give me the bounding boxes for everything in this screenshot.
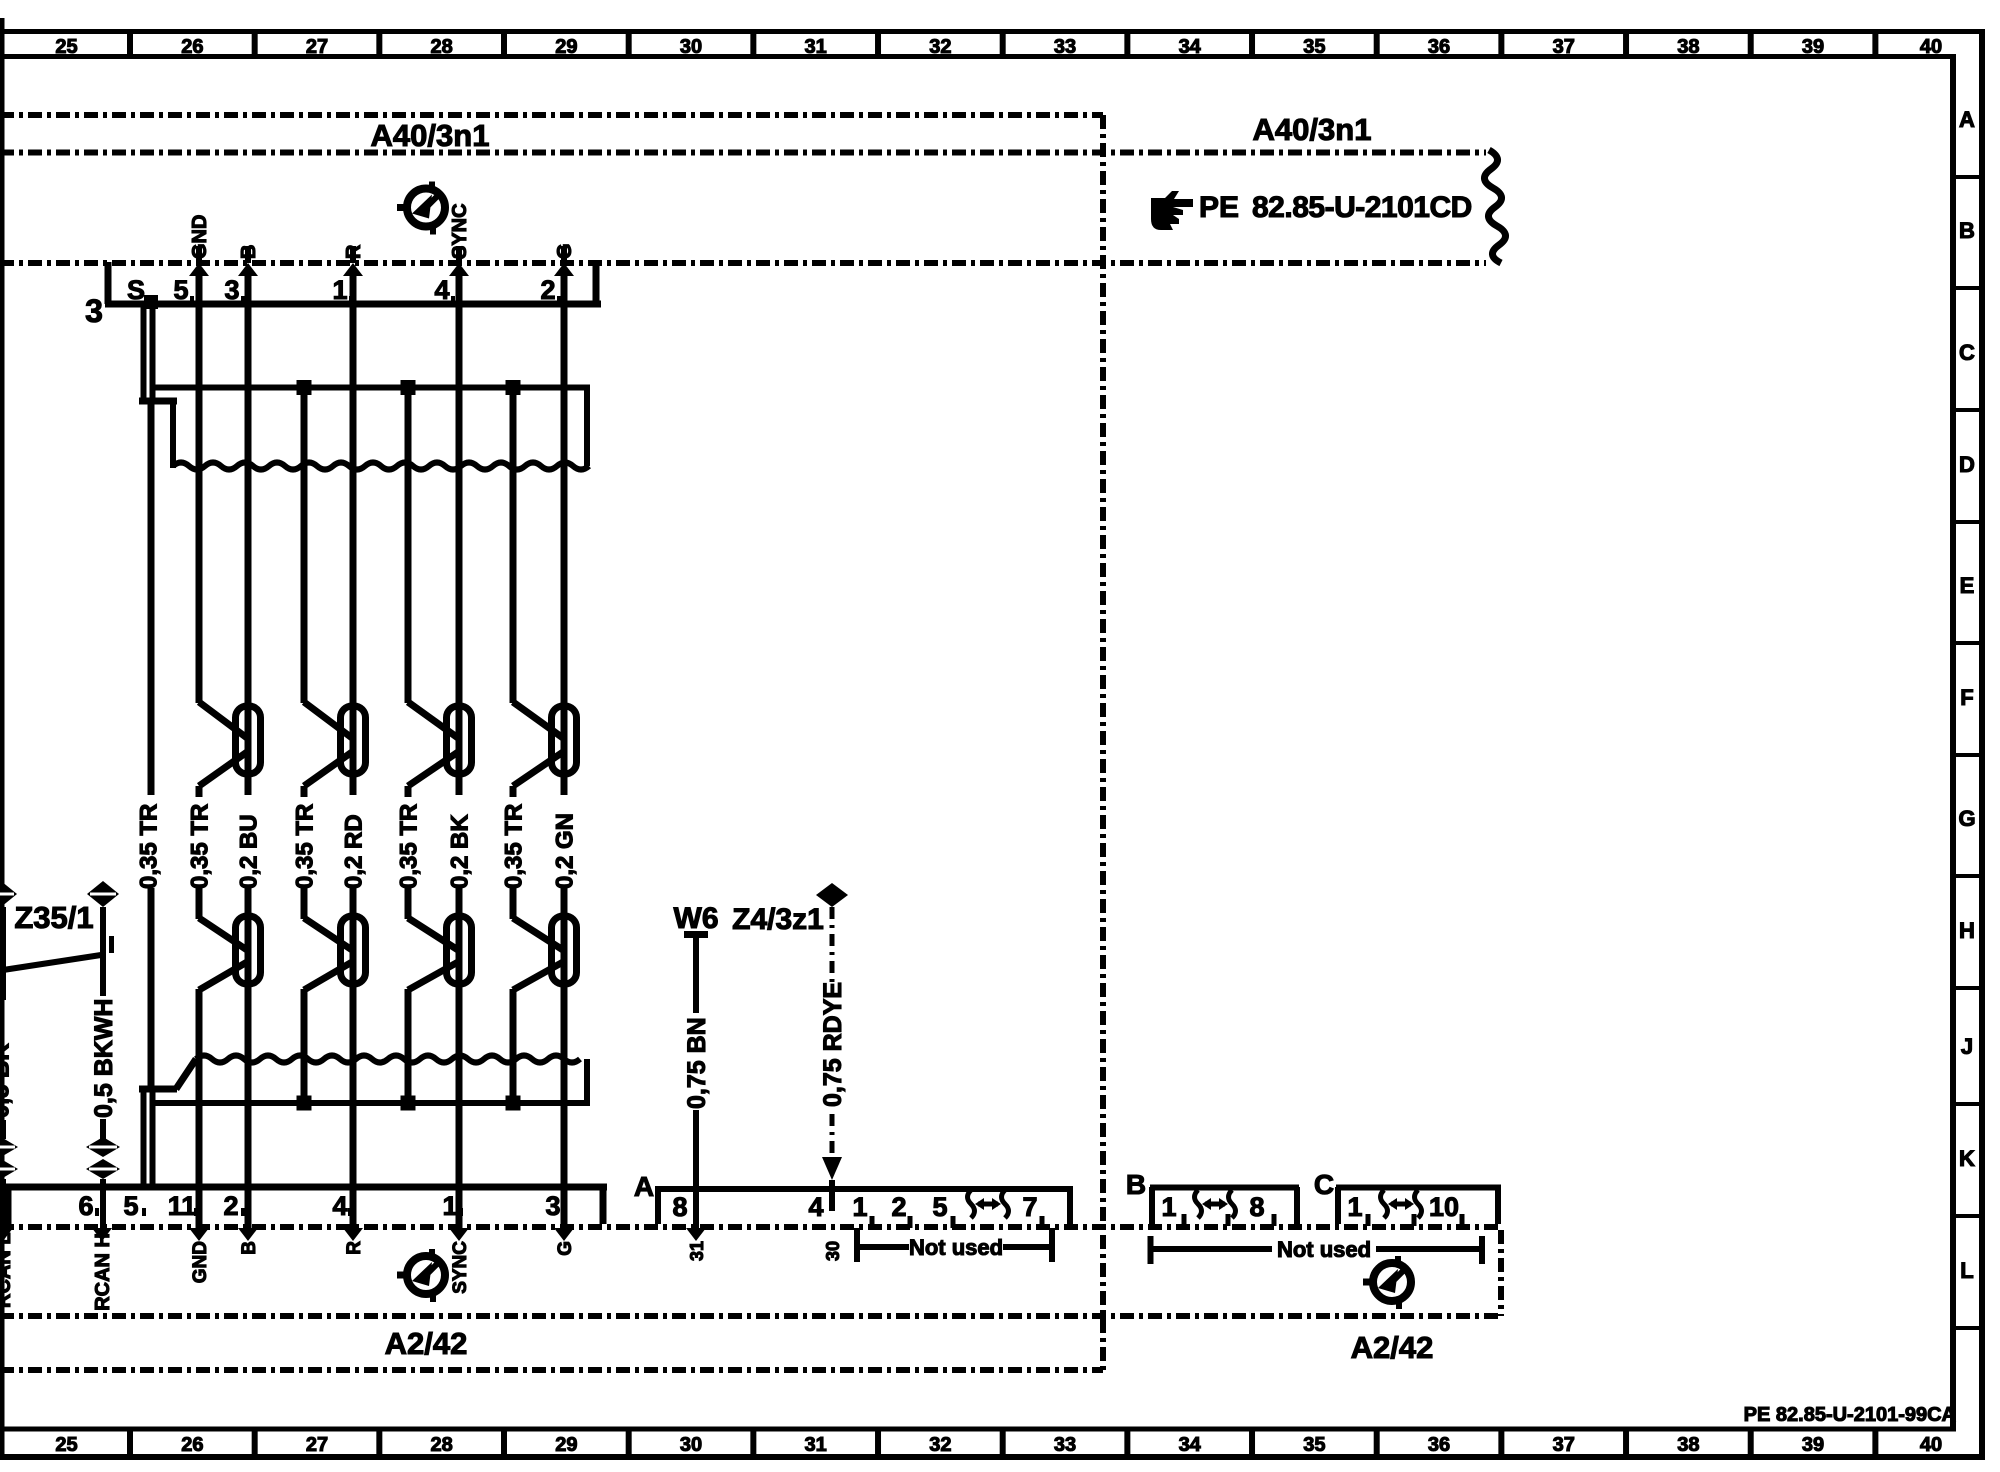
wire: screen drop to cable braid xyxy=(170,401,176,468)
junction: pair4 drain to bottom bus xyxy=(506,1096,521,1111)
pin ticks connector C xyxy=(1368,1214,1462,1226)
svg-text:38: 38 xyxy=(1677,1434,1699,1456)
svg-text:0,2 RD: 0,2 RD xyxy=(341,814,368,889)
connector C of A2/42 xyxy=(1336,1187,1501,1224)
wire 0,75 BN (W6 to pin A8) xyxy=(693,934,699,1229)
node RCAN L arrow xyxy=(0,1228,13,1241)
svg-text:G: G xyxy=(554,243,576,259)
svg-text:4: 4 xyxy=(808,1192,823,1222)
svg-text:37: 37 xyxy=(1553,1434,1575,1456)
pin ticks connector B xyxy=(1184,1214,1274,1226)
svg-text:36: 36 xyxy=(1428,36,1450,58)
not used bracket (connectors B/C) xyxy=(1151,1236,1483,1264)
svg-text:8: 8 xyxy=(1249,1192,1264,1222)
svg-text:E: E xyxy=(1960,573,1975,598)
svg-text:4: 4 xyxy=(332,1191,347,1221)
wire RCAN H to pin 6 xyxy=(100,1179,106,1229)
node SYNC (A40/3n1 internal, pin 4) xyxy=(449,246,469,276)
wire 0,35 TR pair3 drain xyxy=(405,392,412,1098)
svg-text:30: 30 xyxy=(680,1434,702,1456)
svg-text:82.85-U-2101CD: 82.85-U-2101CD xyxy=(1252,191,1472,224)
svg-text:5: 5 xyxy=(123,1191,138,1221)
svg-text:C: C xyxy=(1959,340,1975,365)
node B (A2/42 internal) xyxy=(238,1228,258,1241)
svg-text:Z4/3z1: Z4/3z1 xyxy=(732,903,824,936)
wire 0,35 TR pair2 drain xyxy=(301,392,308,1098)
svg-text:1: 1 xyxy=(332,275,347,305)
svg-text:A: A xyxy=(1959,107,1975,132)
pin ticks connector 3 xyxy=(192,296,559,304)
svg-text:6: 6 xyxy=(78,1191,93,1221)
svg-text:0,5 BK: 0,5 BK xyxy=(0,1043,15,1118)
junction: drain of pair 2 to bus xyxy=(297,380,312,395)
svg-text:0,35 TR: 0,35 TR xyxy=(292,804,319,889)
svg-text:0,2 GN: 0,2 GN xyxy=(552,813,579,889)
svg-text:0,35 TR: 0,35 TR xyxy=(501,804,528,889)
svg-text:J: J xyxy=(1961,1034,1973,1059)
svg-text:Not used: Not used xyxy=(909,1235,1003,1260)
svg-text:PE 82.85-U-2101-99CA: PE 82.85-U-2101-99CA xyxy=(1744,1404,1956,1426)
node GND (A2/42 internal) xyxy=(189,1228,209,1241)
svg-text:0,35 TR: 0,35 TR xyxy=(187,804,214,889)
wire 0,2 BU (pin 3 to pin 2) xyxy=(245,276,252,1229)
svg-text:32: 32 xyxy=(929,36,951,58)
svg-text:B: B xyxy=(1959,218,1975,243)
twisted-pair symbol pair 1 (lower) xyxy=(199,916,261,990)
svg-text:40: 40 xyxy=(1920,36,1942,58)
wire 0,35 TR pair1 drain (pin 5 GND to pin 11) xyxy=(196,276,203,1229)
svg-text:B: B xyxy=(1126,1169,1146,1200)
reference PE 82.85-U-2101CD xyxy=(1151,191,1472,230)
svg-text:S: S xyxy=(127,275,145,305)
svg-text:2: 2 xyxy=(223,1191,238,1221)
twisted-pair symbol pair 4 (lower) xyxy=(513,916,577,990)
svg-text:0,75 BN: 0,75 BN xyxy=(683,1017,711,1109)
junction at pin S xyxy=(144,295,158,309)
svg-text:A40/3n1: A40/3n1 xyxy=(371,118,490,153)
node GND (A40/3n1 internal, pin 5) xyxy=(189,246,209,276)
pins 1-to-8 symbol xyxy=(1195,1190,1236,1218)
svg-text:GND: GND xyxy=(190,1241,211,1283)
plug connection (double sleeve) RCAN L, cut xyxy=(0,1137,18,1179)
svg-text:29: 29 xyxy=(555,36,577,58)
svg-text:R: R xyxy=(344,1241,365,1255)
svg-text:C: C xyxy=(1314,1169,1334,1200)
svg-text:33: 33 xyxy=(1054,36,1076,58)
svg-text:26: 26 xyxy=(181,1434,203,1456)
twisted-pair symbol pair 2 (upper) xyxy=(304,702,366,786)
twisted-pair symbol pair 4 (upper) xyxy=(513,702,577,786)
svg-text:7: 7 xyxy=(1022,1192,1037,1222)
svg-text:PE: PE xyxy=(1199,191,1239,224)
svg-text:SYNC: SYNC xyxy=(450,1241,471,1294)
svg-text:8: 8 xyxy=(672,1192,687,1222)
svg-text:10: 10 xyxy=(1429,1192,1459,1222)
svg-text:Not used: Not used xyxy=(1277,1237,1371,1262)
svg-text:5: 5 xyxy=(173,275,188,305)
svg-text:1: 1 xyxy=(1347,1192,1362,1222)
svg-text:0,5 BKWH: 0,5 BKWH xyxy=(90,999,118,1118)
node RCAN H arrow xyxy=(92,1228,112,1241)
svg-text:36: 36 xyxy=(1428,1434,1450,1456)
svg-text:35: 35 xyxy=(1303,1434,1325,1456)
cable braid (bottom squiggle) xyxy=(196,1056,580,1063)
svg-text:27: 27 xyxy=(306,1434,328,1456)
shield symbol (top) xyxy=(397,182,445,235)
svg-text:40: 40 xyxy=(1920,1434,1942,1456)
svg-text:G: G xyxy=(555,1241,576,1256)
shield symbol (bottom left) xyxy=(397,1249,445,1302)
svg-text:39: 39 xyxy=(1802,1434,1824,1456)
plug connection (double sleeve) RCAN H xyxy=(86,1137,120,1179)
node B (A40/3n1 internal, pin 3) xyxy=(238,246,258,276)
svg-text:37: 37 xyxy=(1553,36,1575,58)
junction: drain of pair 3 to bus xyxy=(401,380,416,395)
wire 0,35 TR pair4 drain xyxy=(510,392,517,1098)
junction: pair3 drain to bottom bus xyxy=(401,1096,416,1111)
wire 0,5 BK (RCAN L, cut at page edge) xyxy=(0,907,6,1139)
svg-text:34: 34 xyxy=(1179,1434,1202,1456)
svg-text:25: 25 xyxy=(55,1434,77,1456)
wire 0,75 RDYE (option, dash-dot) xyxy=(830,907,835,1157)
svg-text:1: 1 xyxy=(1161,1192,1176,1222)
svg-text:0,2 BK: 0,2 BK xyxy=(447,814,474,889)
svg-text:2: 2 xyxy=(540,275,555,305)
svg-text:A2/42: A2/42 xyxy=(385,1326,468,1361)
svg-text:28: 28 xyxy=(431,36,453,58)
svg-text:F: F xyxy=(1960,685,1973,710)
arrow to pin A4 xyxy=(822,1157,842,1211)
svg-text:4: 4 xyxy=(434,275,449,305)
wire: shield bus (top) xyxy=(154,388,590,467)
svg-text:39: 39 xyxy=(1802,36,1824,58)
svg-text:3: 3 xyxy=(545,1191,560,1221)
connector A of A2/42 xyxy=(655,1189,1073,1224)
svg-text:D: D xyxy=(1959,452,1975,477)
node G (A2/42 internal) xyxy=(554,1228,574,1241)
svg-text:31: 31 xyxy=(805,1434,827,1456)
connector sleeve (left edge, RCAN L) xyxy=(0,881,17,907)
svg-text:A: A xyxy=(634,1171,654,1202)
svg-text:H: H xyxy=(1959,918,1975,943)
node SYNC (A2/42 internal) xyxy=(449,1228,469,1241)
svg-text:A40/3n1: A40/3n1 xyxy=(1253,112,1372,147)
twisted-pair symbol pair 2 (lower) xyxy=(304,916,366,990)
svg-text:29: 29 xyxy=(555,1434,577,1456)
amplifier A2/42 boundary (bottom, dash-dot) xyxy=(0,115,1503,1370)
svg-text:28: 28 xyxy=(431,1434,453,1456)
twisted-pair symbol pair 3 (upper) xyxy=(408,702,472,786)
connector B of A2/42 xyxy=(1150,1187,1299,1224)
wire 0,2 RD (pin 1 to pin 4) xyxy=(350,276,357,1229)
wire 0,2 BK (pin 4 to pin 1) xyxy=(456,276,463,1229)
svg-text:38: 38 xyxy=(1677,36,1699,58)
svg-text:33: 33 xyxy=(1054,1434,1076,1456)
connector sleeve at Z4/3z1 xyxy=(816,883,848,907)
svg-text:30: 30 xyxy=(680,36,702,58)
svg-text:25: 25 xyxy=(55,36,77,58)
pins 1-to-10 symbol xyxy=(1381,1190,1422,1218)
twisted-pair symbol pair 1 (upper) xyxy=(199,702,261,786)
svg-text:30: 30 xyxy=(823,1241,843,1261)
svg-text:26: 26 xyxy=(181,36,203,58)
pin ticks connector A2/42 xyxy=(97,1208,564,1216)
svg-text:Z35/1: Z35/1 xyxy=(14,900,93,935)
svg-text:SYNC: SYNC xyxy=(449,203,471,259)
svg-text:32: 32 xyxy=(929,1434,951,1456)
svg-text:GND: GND xyxy=(189,215,211,259)
svg-text:B: B xyxy=(238,245,260,259)
wire 0,2 GN (pin 2 to pin 3) xyxy=(561,276,568,1229)
svg-text:1: 1 xyxy=(852,1192,867,1222)
svg-text:L: L xyxy=(1960,1258,1973,1283)
svg-text:27: 27 xyxy=(306,36,328,58)
wire: shield bus (bottom) xyxy=(154,1059,590,1103)
wire: screen to pin 5 (double line) xyxy=(139,1089,177,1187)
node G (A40/3n1 internal, pin 2) xyxy=(554,246,574,276)
svg-text:0,75 RDYE: 0,75 RDYE xyxy=(819,982,847,1107)
svg-text:5: 5 xyxy=(932,1192,947,1222)
cable braid (top squiggle) xyxy=(173,463,589,470)
svg-text:0,35 TR: 0,35 TR xyxy=(396,804,423,889)
svg-text:3: 3 xyxy=(85,293,103,329)
connector sleeve at Z35/1 xyxy=(87,881,119,907)
svg-text:W6: W6 xyxy=(674,902,719,935)
wire Z35/1 to RCAN L (diagonal) xyxy=(3,936,112,970)
svg-text:K: K xyxy=(1959,1146,1975,1171)
ground W6 xyxy=(674,902,719,935)
pins 5-to-7 symbol xyxy=(968,1190,1009,1218)
svg-text:11: 11 xyxy=(168,1191,197,1221)
junction: drain of pair 4 to bus xyxy=(506,380,521,395)
wire 0,35 TR (screen drain continuation) xyxy=(148,398,155,1092)
node R (A2/42 internal) xyxy=(343,1228,363,1241)
control unit A40/3n1 boundary (top, dash-dot) xyxy=(0,115,1506,263)
svg-text:A2/42: A2/42 xyxy=(1351,1330,1434,1365)
svg-text:1: 1 xyxy=(442,1191,457,1221)
node 31 arrow xyxy=(686,1228,706,1241)
twisted-pair symbol pair 3 (lower) xyxy=(408,916,472,990)
node R (A40/3n1 internal, pin 1) xyxy=(343,246,363,276)
pin ticks connector A xyxy=(872,1216,1042,1228)
svg-text:R: R xyxy=(343,244,365,259)
connector of A2/42 (pins 6,5,11,2,4,1,3) xyxy=(5,1187,607,1224)
wire: braid to screen (diagonal) xyxy=(176,1059,196,1089)
svg-text:RCAN H: RCAN H xyxy=(92,1233,114,1311)
shield symbol (bottom right) xyxy=(1363,1256,1411,1309)
connector 3 of A40/3n1 xyxy=(105,262,601,304)
svg-text:B: B xyxy=(239,1241,260,1255)
svg-text:G: G xyxy=(1958,806,1975,831)
junction: pair2 drain to bottom bus xyxy=(297,1096,312,1111)
wire RCAN L to left pin xyxy=(0,1179,6,1229)
svg-text:31: 31 xyxy=(687,1241,707,1261)
svg-text:34: 34 xyxy=(1179,36,1202,58)
svg-text:0,35 TR: 0,35 TR xyxy=(136,804,163,889)
svg-text:0,2 BU: 0,2 BU xyxy=(236,814,263,889)
svg-text:2: 2 xyxy=(891,1192,906,1222)
not used bracket (connector A) xyxy=(857,1228,1052,1262)
wire: screen from pin S (double line) xyxy=(139,304,177,404)
svg-text:RCAN L: RCAN L xyxy=(0,1232,15,1308)
svg-text:3: 3 xyxy=(224,275,239,305)
wire 0,5 BKWH (RCAN H) xyxy=(100,907,106,1139)
svg-text:31: 31 xyxy=(805,36,827,58)
node RCAN H (A2/42 internal) xyxy=(92,1228,112,1241)
svg-text:35: 35 xyxy=(1303,36,1325,58)
